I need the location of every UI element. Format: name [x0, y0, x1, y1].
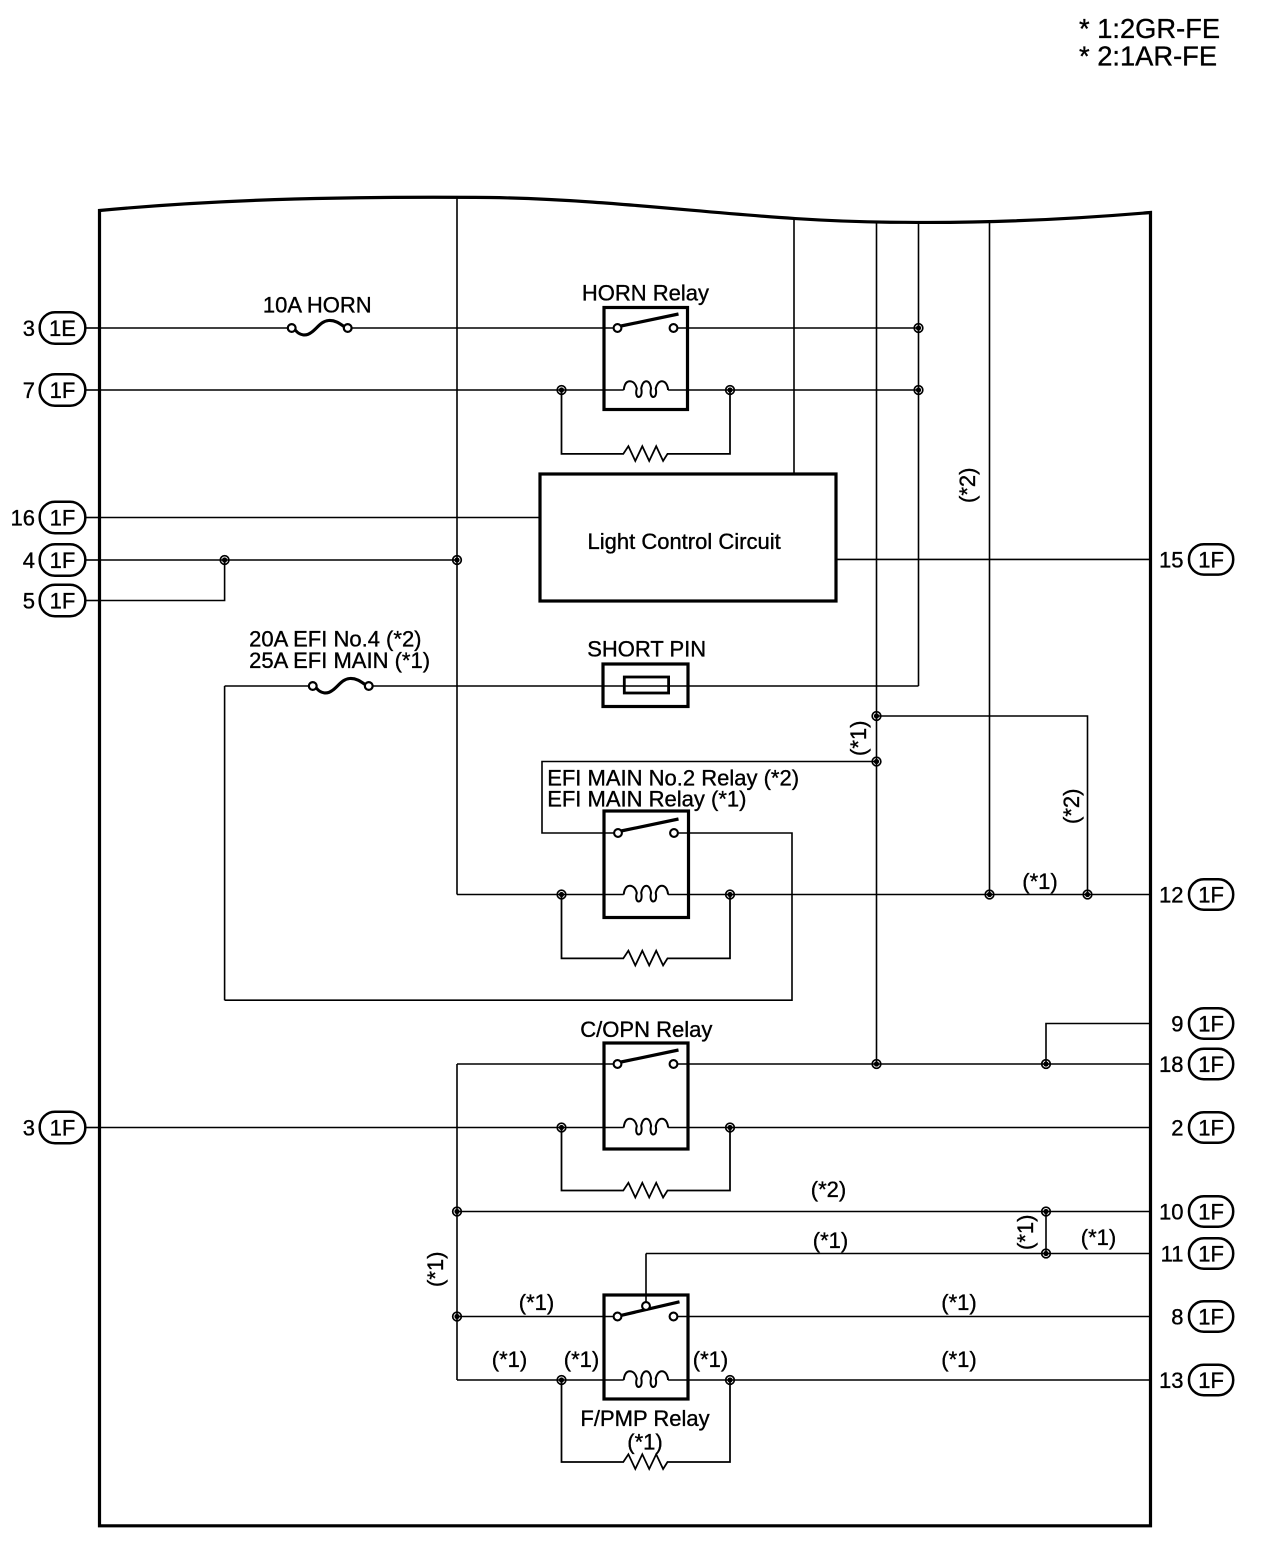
C/OPN relay coil winding [624, 1119, 668, 1135]
wire: C/OPN coil line y=1127.5 pin 3(1F) to pin 2(1F) [100, 1127, 1151, 1129]
svg-text:1E: 1E [49, 316, 76, 341]
resistor: C/OPN relay coil shunt [562, 1128, 731, 1198]
node: EFI coil right junction [726, 890, 735, 899]
node: F/PMP coil left junction [557, 1376, 566, 1385]
wire: pin 9(1F) branch to pin 18 line [1046, 1024, 1151, 1065]
svg-text:1F: 1F [1198, 1199, 1224, 1224]
EFI MAIN relay coil winding [624, 886, 668, 902]
C/OPN relay switch contacts and blade [614, 1050, 679, 1068]
node: pin 9 branch joins pin 18 line [1042, 1060, 1051, 1069]
connector pin 2 (1F) right [1171, 1112, 1233, 1142]
wire: vertical (*2) bus at x=989.5 from top edge to pin 12 line [989, 223, 991, 895]
wire: vertical at x=794 from top edge to Light Control Circuit box [793, 219, 795, 474]
node: C/OPN coil left junction [557, 1123, 566, 1132]
connector pin 4 (1F) left [23, 544, 100, 575]
svg-text:(*1): (*1) [423, 1252, 448, 1287]
svg-text:(*1): (*1) [1081, 1225, 1116, 1250]
svg-text:15: 15 [1159, 547, 1183, 572]
EFI MAIN relay switch contacts and blade [614, 819, 678, 837]
wire: C/OPN switch left feed y=1064 from x=457 [457, 1063, 614, 1065]
svg-text:(*1): (*1) [941, 1347, 976, 1372]
node: HORN coil left junction [557, 386, 566, 395]
svg-text:(*1): (*1) [1013, 1215, 1038, 1250]
node: EFI coil left junction [557, 890, 566, 899]
note: engine variant legend [1079, 13, 1220, 71]
node: horn switch line joins x=918.5 bus [914, 324, 923, 333]
node: pin 4 line joins x=457 bus [453, 556, 462, 565]
wire: pin 3(1E) horn feed at y=328 [100, 327, 919, 329]
resistor: F/PMP relay coil shunt [562, 1380, 731, 1469]
svg-text:5: 5 [23, 588, 35, 613]
svg-text:(*1): (*1) [492, 1347, 527, 1372]
resistor: EFI relay coil shunt [562, 895, 731, 966]
connector pin 15 (1F) right [1159, 544, 1233, 574]
svg-text:18: 18 [1159, 1052, 1183, 1077]
fuse symbol 10A HORN [288, 320, 352, 334]
svg-text:9: 9 [1171, 1011, 1183, 1036]
svg-text:10A HORN: 10A HORN [263, 293, 372, 318]
connector pin 3 (1E) left [23, 312, 100, 343]
svg-text:1F: 1F [1198, 882, 1224, 907]
node: horn coil line joins x=918.5 bus [914, 386, 923, 395]
svg-text:SHORT PIN: SHORT PIN [587, 637, 706, 662]
node: link joins pin 11 line [1042, 1249, 1051, 1258]
node: x=989.5 bus joins pin 12 line [985, 890, 994, 899]
junction block J/B outline (wavy top edge) [100, 197, 1151, 1526]
connector pin 5 (1F) left [23, 585, 100, 616]
relay HORN Relay box [604, 308, 688, 410]
svg-text:1F: 1F [50, 548, 76, 573]
F/PMP relay coil winding [624, 1371, 668, 1387]
wire: link between pin 10 and pin 11 lines at x=1046 [1045, 1212, 1047, 1254]
wire: pin 11(1F) line y=1253.5 from F/PMP switch feed riser [646, 1254, 1151, 1303]
node: link joins pin 10 line [1042, 1207, 1051, 1216]
svg-text:(*1): (*1) [941, 1290, 976, 1315]
node: HORN coil right junction [726, 386, 735, 395]
svg-text:(*1): (*1) [519, 1290, 554, 1315]
label fuse 20A EFI No.4 (*2) / 25A EFI MAIN (*1) [249, 627, 430, 673]
F/PMP relay switch contacts (incl. top feed contact) and blade [614, 1302, 680, 1321]
connector pin 7 (1F) left [23, 374, 100, 405]
svg-text:C/OPN Relay: C/OPN Relay [580, 1017, 712, 1042]
node: C/OPN coil right junction [726, 1123, 735, 1132]
wire: (*1) branch y=716 from x=876.5 bus to x=1087.5 drop [877, 716, 1088, 895]
svg-text:4: 4 [23, 548, 35, 573]
svg-text:2: 2 [1171, 1115, 1183, 1140]
svg-text:1F: 1F [50, 1115, 76, 1140]
connector pin 13 (1F) right [1159, 1365, 1233, 1395]
svg-text:(*1): (*1) [693, 1347, 728, 1372]
svg-text:1F: 1F [50, 505, 76, 530]
wire: F/PMP coil line y=1380 from x=457 corner to pin 13(1F) [457, 1379, 1151, 1381]
svg-text:1F: 1F [1198, 1368, 1224, 1393]
wire: pin 5(1F) at y=600.5 joining pin 4 line [100, 560, 225, 601]
svg-text:Light Control Circuit: Light Control Circuit [588, 529, 781, 554]
label F/PMP Relay (*1) [580, 1406, 709, 1455]
node: x=1087.5 (*2) drop joins pin 12 line [1083, 890, 1092, 899]
wire: x=457 lower bus from C/OPN switch down to F/PMP coil line [456, 1064, 458, 1380]
svg-text:(*1): (*1) [627, 1430, 662, 1455]
svg-text:(*2): (*2) [811, 1177, 846, 1202]
svg-text:(*2): (*2) [955, 468, 980, 503]
connector pin 8 (1F) right [1171, 1301, 1233, 1331]
svg-text:EFI MAIN Relay (*1): EFI MAIN Relay (*1) [547, 787, 746, 812]
svg-text:3: 3 [23, 316, 35, 341]
node: x=876.5 bus ends on pin 18 line [872, 1060, 881, 1069]
svg-text:(*1): (*1) [1022, 869, 1057, 894]
wire: pin 10(1F) line y=1211.5 [457, 1211, 1151, 1213]
svg-text:12: 12 [1159, 882, 1183, 907]
connector pin 3 (1F) left lower [23, 1112, 100, 1143]
svg-text:16: 16 [11, 505, 35, 530]
wire: vertical at x=918.5 from top edge down to SHORT PIN line [918, 222, 920, 686]
svg-text:1F: 1F [1198, 1241, 1224, 1266]
svg-text:10: 10 [1159, 1199, 1183, 1224]
wire: fuse to SHORT PIN to x=918.5 riser at y=686 [373, 685, 919, 687]
fuse symbol EFI MAIN [309, 678, 373, 692]
svg-text:(*2): (*2) [1059, 789, 1084, 824]
block Light Control Circuit [540, 474, 836, 601]
wire: vertical bus at x=457 from top edge to EFI MAIN relay coil line [456, 198, 458, 895]
wire: C/OPN switch right to pin 18(1F) y=1064 [677, 1063, 1150, 1065]
relay EFI MAIN Relay box [604, 811, 689, 918]
wire: pin 8(1F) switch line y=1316.5 [457, 1316, 1151, 1318]
svg-text:13: 13 [1159, 1368, 1183, 1393]
svg-text:(*1): (*1) [813, 1228, 848, 1253]
connector pin 11 (1F) right [1161, 1238, 1234, 1268]
node: pins 4/5 junction [220, 556, 229, 565]
svg-text:11: 11 [1161, 1241, 1184, 1266]
svg-text:1F: 1F [1198, 1052, 1224, 1077]
svg-text:1F: 1F [50, 378, 76, 403]
svg-text:F/PMP Relay: F/PMP Relay [580, 1406, 709, 1431]
svg-text:HORN Relay: HORN Relay [582, 281, 709, 306]
relay C/OPN Relay box [604, 1043, 688, 1149]
relay F/PMP Relay box [604, 1295, 688, 1399]
wire: EFI relay bottom loop to switch right contact (x=792) [225, 833, 792, 1000]
node: pin 8 line crosses x=457 bus [453, 1312, 462, 1321]
connector pin 10 (1F) right [1159, 1196, 1233, 1226]
HORN relay switch contacts and blade [614, 314, 679, 332]
node: pin 10 line starts on x=457 bus [453, 1207, 462, 1216]
connector pin 18 (1F) right [1159, 1049, 1233, 1079]
component SHORT PIN (outer box) [603, 664, 688, 707]
connector pin 12 (1F) right [1159, 879, 1233, 909]
svg-text:8: 8 [1171, 1304, 1183, 1329]
node: y=716 branch joins x=876.5 bus [872, 712, 881, 721]
svg-text:1F: 1F [1198, 1011, 1224, 1036]
wire: pin 7(1F) relay coil feed at y=390 [100, 389, 919, 391]
resistor: HORN relay coil shunt [562, 390, 731, 461]
wire: pin 16(1F) into Light Control Circuit at y=517.5 [100, 517, 541, 519]
component SHORT PIN (inner pin bar) [624, 677, 668, 693]
svg-text:* 1:2GR-FE: * 1:2GR-FE [1079, 13, 1220, 44]
wire: pin 4(1F) at y=560 to x=457 bus [100, 559, 458, 561]
svg-text:(*1): (*1) [846, 721, 871, 756]
wire: EFI relay switch feed loop (x=542 riser, y=761.5 run to x=876.5 bus) [542, 762, 877, 834]
svg-text:1F: 1F [1198, 547, 1224, 572]
svg-text:7: 7 [23, 378, 35, 403]
svg-text:25A EFI MAIN (*1): 25A EFI MAIN (*1) [249, 648, 430, 673]
svg-text:(*1): (*1) [564, 1347, 599, 1372]
svg-text:3: 3 [23, 1115, 35, 1140]
wire: Light Control Circuit output to pin 15(1F) at y=559.4 [836, 558, 1151, 560]
svg-text:1F: 1F [1198, 1115, 1224, 1140]
wire: EFI relay coil line y=894.5 from x=457 bus to pin 12(1F) [457, 894, 1151, 896]
wire: EFI fuse feed at y=686 with drop at x=224.6 down to loop bottom [225, 686, 309, 1000]
svg-text:1F: 1F [1198, 1304, 1224, 1329]
wire: vertical at x=876.5 from top edge down to C/OPN relay switch line [876, 221, 878, 1064]
labels (*1) on pin 13 coil line [492, 1347, 977, 1372]
HORN relay coil winding [624, 381, 668, 397]
svg-text:1F: 1F [50, 588, 76, 613]
svg-text:* 2:1AR-FE: * 2:1AR-FE [1079, 41, 1217, 72]
node: F/PMP coil right junction [726, 1376, 735, 1385]
node: EFI switch feed joins x=876.5 bus [872, 757, 881, 766]
connector pin 16 (1F) left [11, 502, 100, 533]
label EFI MAIN No.2 Relay (*2) / EFI MAIN Relay (*1) [547, 766, 799, 812]
connector pin 9 (1F) right [1171, 1008, 1233, 1038]
